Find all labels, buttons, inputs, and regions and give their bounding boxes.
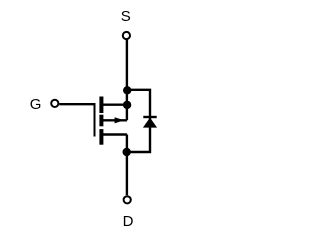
svg-text:G: G — [30, 96, 42, 113]
svg-text:S: S — [121, 8, 131, 25]
svg-text:D: D — [123, 213, 134, 230]
